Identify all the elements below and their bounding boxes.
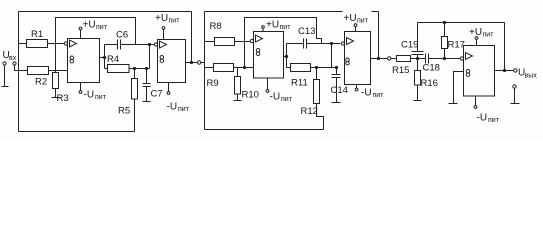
wire feedback drop to op5 output — [504, 23, 506, 71]
wire output riser — [104, 45, 106, 69]
op-amp U4 — [341, 42, 344, 45]
wire inner loop 2 — [245, 18, 322, 44]
resistor R12 — [316, 68, 318, 80]
op3 +supply terminal — [262, 28, 264, 31]
op3 -supply terminal — [267, 78, 269, 90]
svg-text:-U: -U — [477, 113, 488, 124]
wire op2 output — [186, 62, 198, 64]
capacitor C13 — [287, 43, 304, 45]
svg-text:пит: пит — [488, 117, 500, 124]
svg-text:C7: C7 — [151, 89, 163, 100]
wire box1 bottom rail — [19, 131, 135, 133]
svg-text:R8: R8 — [210, 21, 222, 32]
svg-text:+U: +U — [344, 13, 357, 24]
svg-text:пит: пит — [95, 94, 107, 101]
wire feedback drop to op2 output — [191, 12, 193, 63]
resistor R17 — [444, 23, 446, 37]
svg-text:C14: C14 — [331, 85, 348, 96]
node stage2 output terminal — [388, 57, 391, 60]
resistor R10 — [237, 68, 239, 77]
svg-text:пит: пит — [357, 18, 369, 25]
resistor R15 — [397, 56, 411, 62]
resistor R16 — [417, 59, 419, 71]
svg-text:пит: пит — [373, 92, 385, 99]
svg-text:вх: вх — [9, 55, 17, 62]
op1 +supply terminal — [80, 30, 82, 39]
wire to output network — [391, 58, 397, 60]
wire op5 lower input to common — [449, 72, 464, 104]
output common terminal — [513, 85, 516, 88]
op2 +supply terminal — [163, 30, 165, 40]
svg-text:-U: -U — [167, 102, 178, 113]
resistor R11 — [287, 67, 291, 69]
wire riser to op2 input — [149, 45, 151, 69]
input terminal right — [13, 62, 16, 65]
wire op4 output — [371, 58, 388, 60]
svg-text:пит: пит — [483, 32, 495, 39]
wire input to R2 node — [15, 65, 19, 70]
op2 -supply terminal — [168, 83, 170, 92]
output common stub with bar — [511, 88, 520, 103]
svg-text:R12: R12 — [301, 106, 318, 117]
svg-text:C19: C19 — [401, 40, 418, 51]
svg-text:-U: -U — [270, 92, 281, 103]
svg-text:R5: R5 — [118, 106, 130, 117]
svg-text:+U: +U — [83, 20, 96, 31]
resistor R1 — [19, 43, 27, 45]
capacitor C18 — [426, 54, 429, 64]
op5 +supply terminal — [476, 40, 478, 46]
node Uvx input label — [3, 50, 17, 62]
wire op1 output — [100, 57, 105, 59]
node Uvyh output label — [518, 68, 537, 80]
svg-text:C6: C6 — [116, 30, 128, 41]
wire op5 output — [495, 70, 514, 72]
capacitor C7 — [146, 69, 148, 84]
svg-text:R15: R15 — [392, 65, 409, 76]
wire box1 top feedback — [19, 11, 192, 13]
svg-text:R10: R10 — [242, 90, 259, 101]
svg-text:R1: R1 — [31, 29, 43, 40]
wire inner loop1 left drop to R2 wire — [55, 44, 57, 71]
svg-text:R9: R9 — [207, 78, 219, 89]
svg-text:R11: R11 — [291, 78, 308, 89]
wire rail rise to R12 — [317, 104, 324, 130]
svg-text:R3: R3 — [57, 93, 69, 104]
wire rail rise to R5 — [134, 99, 136, 132]
wire to op5 input — [445, 58, 461, 60]
svg-text:пит: пит — [281, 96, 293, 103]
wire box2 top feedback — [205, 11, 379, 13]
op5 -supply terminal — [475, 96, 477, 106]
svg-text:пит: пит — [96, 24, 108, 31]
resistor R4 — [105, 68, 108, 70]
wire riser to op4 input — [331, 44, 333, 68]
svg-text:R17: R17 — [448, 40, 465, 51]
wire op3 output — [284, 56, 287, 58]
op4 +supply terminal — [343, 6, 372, 17]
wire feedback drop to op4 output — [378, 12, 380, 59]
svg-text:пит: пит — [178, 106, 190, 113]
capacitor C6 — [105, 44, 118, 46]
capacitor C19 — [417, 55, 419, 59]
svg-text:R16: R16 — [421, 78, 438, 89]
op-amp U1 — [64, 42, 67, 45]
op-amp U5 — [460, 57, 463, 60]
node output terminal — [514, 69, 517, 72]
svg-text:вых: вых — [525, 73, 538, 80]
svg-text:пит: пит — [280, 24, 292, 31]
resistor R5 — [134, 69, 136, 79]
wire to box2 — [201, 62, 205, 64]
resistor R9 — [205, 67, 214, 69]
wire inner loop2 left drop to R9 wire — [244, 42, 246, 68]
svg-text:пит: пит — [169, 18, 181, 25]
svg-text:R2: R2 — [35, 77, 47, 88]
op-amp U2 — [154, 43, 157, 46]
svg-text:C13: C13 — [298, 26, 315, 37]
resistor R8 — [205, 41, 215, 43]
op4 -supply terminal — [356, 85, 358, 89]
wire box2 left edge — [204, 12, 206, 130]
svg-text:C18: C18 — [423, 63, 440, 74]
node stage1 output terminal — [198, 61, 201, 64]
input terminal left — [3, 62, 6, 65]
wire box2 bottom rail — [205, 129, 324, 131]
svg-text:-U: -U — [361, 88, 372, 99]
svg-text:-U: -U — [84, 90, 95, 101]
svg-text:+U: +U — [266, 20, 279, 31]
resistor R2 — [19, 70, 28, 72]
input common stub with bar — [2, 65, 9, 86]
wire top feedback of U5 — [418, 22, 505, 24]
capacitor C14 — [336, 68, 338, 75]
svg-text:R4: R4 — [107, 54, 119, 65]
svg-text:+U: +U — [469, 27, 482, 38]
op-amp U3 — [250, 39, 253, 42]
resistor R3 — [55, 71, 57, 73]
wire inner loop 1 — [56, 18, 136, 45]
wire box1 left edge — [18, 12, 20, 132]
svg-text:+U: +U — [155, 13, 168, 24]
op1 -supply terminal — [80, 83, 82, 91]
